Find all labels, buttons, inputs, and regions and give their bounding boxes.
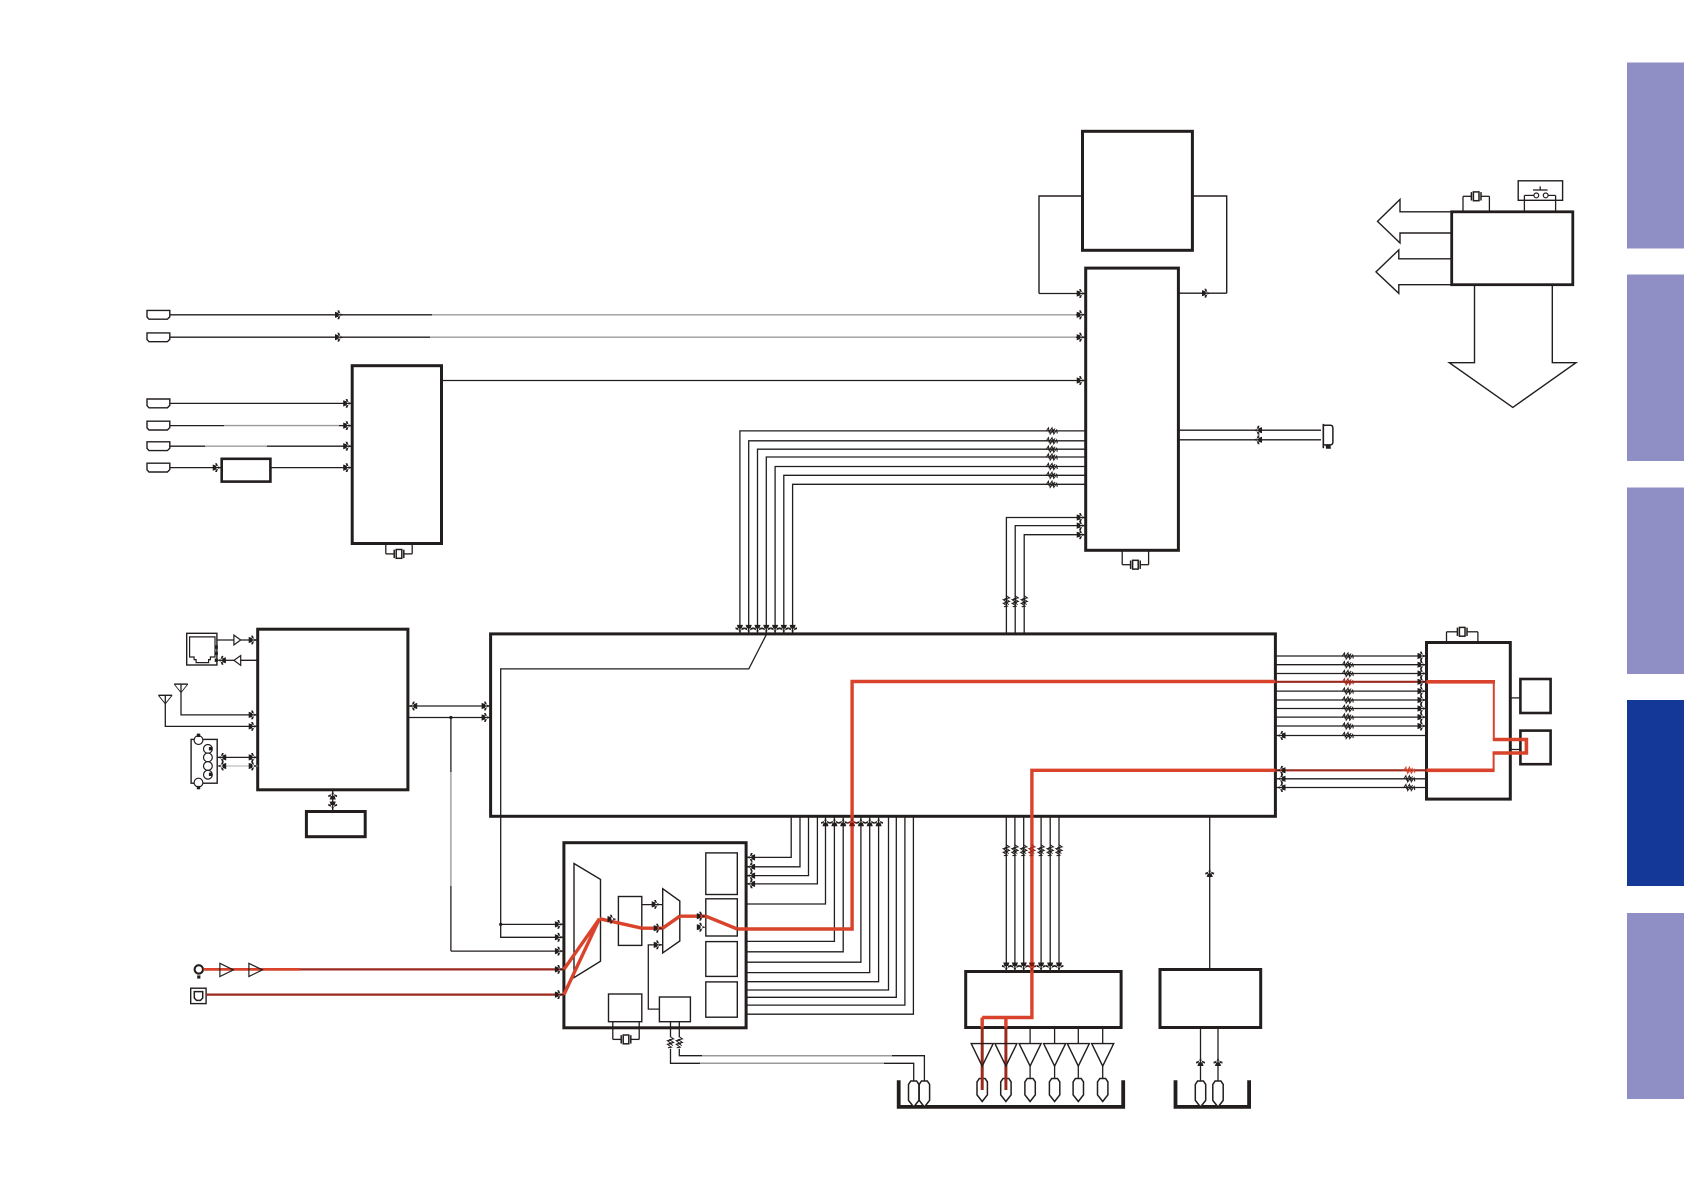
internal bus line in U5 down to U8 <box>501 634 767 937</box>
sidebar tab 5 <box>1627 913 1684 1099</box>
bus U8 to U5 (4 plain wires) <box>746 816 888 990</box>
gray wire U8 to pin P1 <box>700 1062 884 1064</box>
wire U3 to CN7 line 1 <box>1178 429 1321 431</box>
resistor marks on U5-U9 bus <box>1003 844 1009 857</box>
wire M1 to U3 <box>1039 293 1086 295</box>
wire J4 to U6 bidirectional <box>217 756 258 758</box>
pin Pa4 <box>1049 1079 1059 1102</box>
pin Pa3 <box>1025 1079 1035 1102</box>
crystal X3 under U8 <box>612 1022 614 1040</box>
wire J3 to buffer to U6 <box>215 639 234 641</box>
red wire U5 to U9 <box>982 770 1275 1017</box>
crystal X4 above U11 <box>1446 632 1448 643</box>
IC U4 left interface box <box>352 366 441 544</box>
switch SW1 contacts <box>1523 195 1525 211</box>
node tap junction <box>449 716 452 719</box>
terminal CN1 <box>147 310 170 319</box>
IC U11 right box <box>1427 643 1511 800</box>
bus U3 to U5 (7 wires) <box>740 431 1086 634</box>
inverter V6 <box>1092 1044 1114 1067</box>
connector J6 optical jack <box>191 988 206 1003</box>
IC U12 small box <box>1520 679 1550 713</box>
IC U6 network box <box>258 629 408 790</box>
wire U11 to U13 stub <box>1510 749 1520 751</box>
wire S1 top output to MX2 <box>642 904 663 906</box>
resistor marks on U11-U5 lower <box>1403 767 1416 773</box>
terminal CN3 <box>147 399 170 408</box>
antenna ANT1 <box>174 683 188 685</box>
gray wire CN5 run <box>205 445 267 447</box>
wire CN1 to U3 <box>170 314 433 316</box>
wire CN5 to U4 <box>170 445 206 447</box>
red wire J5 to U8 <box>203 968 300 971</box>
resistor marks on U5-U11 bus <box>1341 653 1354 659</box>
block E1 oscillator inside U8 <box>609 994 642 1022</box>
buffer B3 <box>220 963 234 976</box>
wire U11 to U5 lower 2 <box>1275 787 1426 789</box>
block arrow down <box>1449 282 1576 407</box>
connector J5 mic jack <box>195 965 203 973</box>
node branch junction <box>499 923 502 926</box>
wire ANT2 to U6 <box>165 695 257 726</box>
wire U11 to U5 lower 1 <box>1275 778 1426 780</box>
block S1 inside U8 <box>618 897 641 946</box>
bus U5 to U9 (6 wires) <box>1005 816 1007 971</box>
crystal X2 under U4 <box>385 544 387 554</box>
sidebar tab 2 <box>1627 275 1684 462</box>
resistor marks on U5-U3 bus <box>1003 595 1009 608</box>
wire U10 to U5 <box>1209 816 1211 969</box>
wire CN3 to U4 <box>170 402 353 404</box>
pin P1 <box>909 1081 919 1107</box>
wire U11 to U12 stub <box>1510 697 1520 699</box>
wire CN6 to U14 <box>170 467 222 469</box>
stubs inverters to pins <box>981 1066 983 1078</box>
red wire J6 to U8 <box>206 993 564 995</box>
inverter V1 <box>971 1044 993 1067</box>
block F1 inside U8 <box>659 997 690 1022</box>
pin P7 <box>1195 1081 1205 1107</box>
IC U9 driver box <box>966 972 1121 1028</box>
buffer B2 <box>234 656 241 666</box>
red drop to pin Pa1 <box>981 1018 984 1028</box>
wire CN2 to U3 <box>170 336 431 338</box>
wire U10 to pin P7 <box>1200 1028 1202 1082</box>
power box PS1 <box>1452 212 1573 285</box>
wire F1 up to MX2 <box>648 945 662 1009</box>
buffer U14 small box on CN6 line <box>222 459 271 482</box>
antenna ANT2 <box>158 694 172 696</box>
wire CN4 to U4 <box>170 425 225 427</box>
inverter V4 <box>1044 1044 1066 1067</box>
connector J1 housing <box>899 1080 1123 1107</box>
gray wire U8 to pin P2 <box>702 1055 892 1057</box>
wire U6 to buffer to J3 <box>241 659 258 661</box>
module M1 frame <box>1039 196 1227 294</box>
IC U1 top memory box <box>1083 131 1193 250</box>
pin P8 <box>1213 1081 1223 1107</box>
terminal CN5 <box>147 442 170 451</box>
stubs U9 to inverters <box>1029 1029 1031 1044</box>
bus U8 to U5 (6 wires) <box>746 816 825 904</box>
IC U5 main controller <box>491 634 1276 816</box>
buffer B1 <box>234 635 241 645</box>
pin P2 <box>919 1081 929 1107</box>
mux MX1 trapezoid <box>574 864 601 978</box>
crystal X1 under U3 <box>1121 550 1123 565</box>
gray segment of tap wire <box>450 772 452 886</box>
inverter V2 <box>995 1044 1017 1067</box>
IC U13 small box <box>1520 731 1550 765</box>
block arrow out 1 <box>1378 199 1456 243</box>
inverter V5 <box>1067 1044 1089 1067</box>
resistor marks on U3-U5 bus <box>1045 428 1058 434</box>
pin Pa5 <box>1073 1079 1083 1102</box>
mux MX2 trapezoid <box>663 889 680 953</box>
connector CN7 card tab <box>1323 425 1333 445</box>
wire branch to U8 <box>501 923 564 925</box>
terminal CN6 <box>147 463 170 472</box>
IC U7 small box under U6 <box>306 812 365 837</box>
wire U3 to CN7 line 2 <box>1178 439 1321 441</box>
connector J3 modular jack <box>187 633 217 665</box>
pin Pa6 <box>1098 1079 1108 1102</box>
IC U8 video switch box <box>564 843 746 1028</box>
resistor marks under F1 <box>667 1036 673 1049</box>
gray wire J4 to U6 <box>217 765 258 767</box>
wire U3 to M1 <box>1178 292 1226 294</box>
red wire U8 to U5 <box>737 682 1275 930</box>
connector J2 housing <box>1176 1080 1250 1107</box>
wire U11 to U5 <box>1275 735 1426 737</box>
block A1 inside U8 <box>706 853 738 895</box>
pin Pa2 <box>1001 1079 1011 1102</box>
gray wire CN1 run <box>432 314 1076 316</box>
wire F1 resistor drop 1 <box>678 1022 680 1037</box>
wire U6 to U5 with tap <box>408 717 490 719</box>
block arrow out 2 <box>1376 250 1455 294</box>
wire ANT1 to U6 <box>181 684 258 715</box>
bus U5 to U3 (3 wires) <box>1006 518 1085 634</box>
wire U10 to pin P8 <box>1217 1028 1219 1082</box>
pin Pa1 <box>977 1079 987 1102</box>
arrowheads <box>335 310 344 319</box>
wire U6 to U7 bidirectional <box>332 790 334 812</box>
wire tap down to U8 <box>450 718 452 773</box>
bus U5 to U11 (8 wires) <box>1275 655 1426 657</box>
bus U5 to U8 block A1 (4 wires) <box>746 816 791 857</box>
red wire U11 back to U5 <box>1275 769 1426 771</box>
crystal X5 above PS1 <box>1462 196 1464 212</box>
sidebar tab 1 <box>1627 63 1684 249</box>
sidebar tab 4 (dark) <box>1627 700 1684 886</box>
red path inside U11 and U13 <box>1427 680 1496 684</box>
red drop to pin Pa2 <box>1004 1018 1007 1028</box>
red path inside U8 <box>564 919 600 970</box>
block A3 inside U8 <box>706 942 738 977</box>
IC U3 tall box <box>1086 268 1179 550</box>
wire U14 to U4 <box>270 467 352 469</box>
IC U10 driver box <box>1160 970 1261 1028</box>
block A4 inside U8 <box>706 982 738 1017</box>
gray wire CN4 run <box>224 425 339 427</box>
inverter V3 <box>1019 1044 1041 1067</box>
terminal CN2 <box>147 333 170 342</box>
buffer B4 <box>249 963 263 976</box>
switch SW1 housing <box>1518 181 1562 201</box>
wire U4 to U3 <box>442 380 1086 382</box>
sidebar tab 3 <box>1627 488 1684 675</box>
connector J4 DIN <box>191 739 217 783</box>
block A2 inside U8 <box>706 899 738 936</box>
wire F1 resistor drop 2 <box>670 1022 672 1037</box>
terminal CN4 <box>147 421 170 430</box>
red wire U5 to U11 <box>1275 681 1426 683</box>
gray wire CN2 run <box>430 336 1076 338</box>
wire U6 to U5 bidirectional <box>408 705 490 707</box>
